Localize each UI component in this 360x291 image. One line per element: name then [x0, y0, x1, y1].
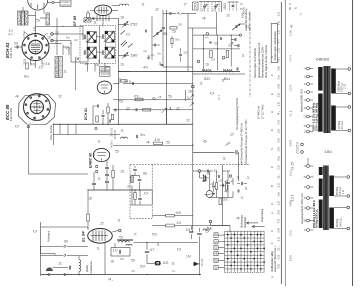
gang right edge line [221, 2, 223, 13]
svg-text:180: 180 [130, 54, 138, 58]
svg-text:10k: 10k [289, 29, 293, 36]
detector vertical wire x231.2 [230, 35, 232, 66]
resistor below ECH81 [26, 63, 28, 69]
dial table right label [271, 246, 277, 272]
EM80 capacitor m2 [237, 190, 239, 193]
svg-text:9: 9 [124, 80, 129, 84]
oscillator coil L5 [120, 4, 129, 6]
resistor row2 [143, 109, 151, 111]
wire right of label boxes [75, 57, 77, 90]
FM block capacitor d1 [209, 41, 212, 43]
trimmer capacitor C15 [124, 23, 126, 26]
labels right of terminals [55, 31, 60, 45]
svg-text:1: 1 [221, 79, 226, 83]
svg-text:56 Wdg 0,35 CuL: 56 Wdg 0,35 CuL [316, 208, 319, 228]
capacitor right r47 [189, 230, 193, 232]
svg-text:5: 5 [36, 19, 41, 23]
svg-text:68k: 68k [289, 199, 293, 206]
svg-text:Skalenzeiger: Skalenzeiger [241, 214, 244, 228]
wire tone capacitor [152, 225, 166, 227]
AVC rail y109.8 [113, 109, 193, 111]
tone network dashed divider [151, 165, 153, 219]
label patch mid top [143, 49, 162, 56]
wire tone resistor [152, 215, 166, 217]
svg-text:4,: 4, [108, 278, 113, 282]
svg-text:7: 7 [133, 233, 138, 237]
IF tuned circuit Fi4 coil [105, 47, 114, 58]
tube EABC80 electrodes [93, 153, 106, 161]
IF tuned circuit Fi4 capacitor [101, 50, 103, 55]
ratio detector left rail [192, 28, 194, 74]
svg-text:3: 3 [88, 197, 93, 201]
svg-text:47: 47 [150, 248, 155, 252]
capacitor mid top area [154, 44, 156, 47]
wire ECH81 top to IF box [35, 26, 37, 33]
svg-text:12: 12 [143, 49, 148, 53]
rail y134.3 [53, 133, 120, 135]
capacitor mid x148 [147, 57, 149, 60]
svg-text:3n: 3n [140, 133, 145, 137]
grid capacitor left of ECH81 [16, 46, 18, 49]
EM80 resistor k3 [215, 183, 217, 190]
dial table switch box 4 [214, 252, 218, 256]
IF transformer dashed box [80, 26, 116, 64]
tone network dashed bottom edge [130, 217, 152, 219]
svg-text:0,: 0, [134, 94, 141, 98]
svg-text:EL 84: EL 84 [80, 231, 85, 242]
capacitor near 10k [132, 82, 134, 85]
resistor 10k left rail [121, 80, 127, 82]
tube EC92 envelope [97, 81, 111, 94]
mixer cluster resistor d [96, 116, 98, 122]
svg-text:3: 3 [47, 36, 52, 40]
wire EL84 plate [112, 231, 118, 233]
Zugrichtung arrow [247, 222, 259, 224]
capacitor bottom left [92, 182, 96, 184]
band switch contacts [121, 41, 127, 47]
power transformer secondary winding bar upper [331, 69, 336, 94]
label box column K1 [18, 11, 22, 25]
svg-text:5: 5 [115, 150, 120, 154]
wire top node to right [36, 25, 84, 27]
diode arrow row2 [162, 108, 167, 113]
svg-text:56: 56 [176, 211, 181, 215]
svg-text:22: 22 [245, 25, 250, 29]
junction dots mixer [102, 124, 119, 125]
svg-text:1M1: 1M1 [223, 3, 227, 10]
mains vertical wire x40.5 [40, 222, 42, 276]
mixer terminal h [95, 127, 97, 129]
svg-text:3n: 3n [188, 90, 194, 94]
tuning gang label box [193, 2, 199, 10]
volume pot capacitor v1 [133, 168, 137, 170]
wire stack vertical [94, 161, 113, 191]
detector vertical wire x217.4 [216, 35, 218, 70]
margin text marks column [289, 29, 293, 261]
power transformer core [324, 66, 331, 133]
svg-text:25252: 25252 [296, 142, 300, 154]
switch contact extra b [128, 44, 132, 48]
svg-text:33: 33 [223, 198, 228, 202]
sheet border right edge [352, 0, 354, 286]
svg-text:7070: 7070 [101, 72, 110, 76]
terminal node A1 [206, 33, 209, 36]
svg-text:0,: 0, [277, 245, 280, 250]
svg-text:15: 15 [84, 62, 89, 66]
wire EF89 left [87, 10, 89, 13]
label column left of AF rails [110, 127, 118, 148]
capacitor top centre x163 [162, 27, 165, 29]
svg-text:U: U [270, 203, 274, 205]
IF box output wires [88, 63, 106, 71]
tube ECH81 pin terminals [23, 35, 47, 59]
second gang trimmer group [228, 2, 239, 11]
B+ vertical wire x237 [238, 152, 240, 181]
IF box centre divider [99, 26, 101, 64]
label box column K2 [21, 11, 25, 25]
wire from output transformer top [307, 158, 309, 165]
svg-text:15: 15 [131, 269, 136, 273]
trimmer capacitor C16 [124, 54, 126, 57]
tuning gang top bracket [199, 1, 221, 3]
svg-text:10: 10 [218, 179, 223, 183]
sheet fold line right [284, 0, 286, 286]
svg-text:70: 70 [105, 65, 110, 69]
mixer cluster capacitor a [97, 105, 99, 108]
IF tuned circuit Fi1 corner blobs [87, 31, 97, 42]
svg-text:2M: 2M [277, 210, 280, 215]
dial table switch box 5 [214, 258, 218, 262]
svg-text:4,: 4, [177, 12, 182, 16]
power transformer secondary winding bar lower [331, 106, 336, 131]
coil 27k right [203, 229, 209, 231]
svg-text:2: 2 [226, 14, 231, 18]
svg-text:5: 5 [166, 141, 171, 145]
tube EF89 envelope [94, 5, 111, 15]
IF tuned circuit Fi3 trimmer arrow [86, 48, 95, 58]
svg-text:4: 4 [202, 17, 207, 21]
capacitor x180 [179, 54, 182, 56]
EM80 terminal t1 [198, 170, 201, 173]
svg-text:eingedreht (Stand max.): eingedreht (Stand max.) [274, 246, 277, 272]
svg-text:K: K [270, 129, 274, 131]
volume pot resistor v2 [131, 176, 133, 183]
svg-text:50: 50 [194, 3, 198, 9]
terminal 158 [191, 85, 194, 88]
power transformer primary winding labels [313, 102, 319, 131]
output transformer secondary bar upper [329, 176, 334, 197]
svg-text:ZF 10,7 MHz: ZF 10,7 MHz [262, 104, 265, 119]
resistor 56k [135, 98, 143, 101]
IF tuned circuit Fi2 coil [105, 31, 114, 42]
svg-text:1: 1 [244, 187, 249, 191]
cathode resistor EL84 [87, 214, 90, 221]
tube ECC85 pin terminals [25, 95, 49, 119]
tube ECH81 pin stub wires [24, 32, 48, 64]
FM block capacitor d2 [220, 37, 222, 40]
IF tuned circuit Fi4 trimmer arrow [104, 48, 113, 58]
volume pot resistor v4 [134, 193, 136, 200]
output transformer winding labels left [313, 200, 319, 228]
svg-text:0,: 0, [277, 56, 280, 61]
dial table box leads [218, 235, 224, 267]
tube EF89 electrodes [97, 7, 110, 14]
tube V1 top (clipped at sheet edge) [28, 0, 48, 10]
output transformer primary coil [119, 241, 130, 243]
svg-text:17 Ω: 17 Ω [344, 84, 347, 89]
svg-text:2n2: 2n2 [289, 169, 293, 176]
EM80 extra capacitor n2 [212, 185, 215, 187]
svg-text:0: 0 [33, 230, 38, 234]
svg-text:180: 180 [289, 254, 293, 261]
svg-text:E: E [270, 93, 274, 95]
B+ capacitor [235, 150, 237, 155]
capacitor 47nF [145, 250, 149, 252]
vertical wire x163 top [162, 10, 164, 67]
terminal node 33 [51, 33, 54, 36]
svg-text:1: 1 [187, 96, 190, 100]
fold-line tick labels [277, 11, 280, 269]
EM80 resistor k5 [225, 181, 227, 190]
antenna coil wires [78, 256, 80, 260]
wire ECC85 bottom rail [28, 173, 88, 175]
svg-text:0,1: 0,1 [289, 109, 293, 116]
svg-text:2: 2 [155, 8, 160, 12]
svg-text:56: 56 [175, 37, 180, 41]
svg-text:2: 2 [230, 133, 235, 137]
output transformer core lines [117, 239, 133, 240]
svg-text:Drehko: Drehko [243, 6, 246, 14]
short vline x185 [185, 90, 187, 101]
svg-text:ECH 81: ECH 81 [84, 108, 88, 120]
svg-text:15: 15 [183, 50, 188, 54]
ECC85 cathode terminal [27, 126, 29, 128]
svg-text:5: 5 [205, 230, 210, 234]
EM80 capacitor k1 [207, 170, 209, 173]
svg-text:1k: 1k [45, 62, 51, 66]
EM80 resistor 4.7k [219, 199, 222, 205]
note text ZF frequencies [236, 98, 265, 165]
svg-text:2n2n2n2n: 2n2n2n2n [59, 57, 63, 77]
diode arrow on rail b [190, 103, 194, 107]
svg-text:2: 2 [58, 262, 63, 266]
tube ECC85 octagon shield [19, 95, 56, 125]
tuning gang section 2 [212, 2, 219, 13]
diode arrow on rail a [190, 95, 194, 99]
label box M2 [100, 72, 111, 76]
terminal below EM80 [209, 220, 212, 223]
loudspeaker connector plug [155, 261, 161, 265]
EM80 capacitor k2 [218, 175, 220, 178]
wire label boxes to tube V1 [28, 15, 36, 17]
main rail y71.5 [118, 71, 240, 73]
wire terminal 43 right [53, 40, 71, 42]
svg-text:15: 15 [176, 221, 181, 225]
label box column K3 [25, 11, 29, 25]
svg-text:30: 30 [204, 77, 210, 81]
label row under IF box [84, 62, 110, 69]
svg-text:1: 1 [168, 107, 173, 111]
svg-text:1: 1 [93, 21, 98, 25]
svg-text:40: 40 [30, 63, 35, 67]
mains step wire [41, 246, 56, 255]
chassis letter labels along fold line [270, 56, 274, 278]
IF transformer label box [84, 18, 91, 22]
svg-text:180: 180 [324, 150, 332, 154]
dial cord grid dashed bottom [225, 271, 265, 273]
labels below ECH81 [8, 28, 51, 69]
dial table switch box 3 [214, 246, 218, 250]
detector resistor R32 [226, 51, 228, 58]
svg-text:5k6: 5k6 [289, 139, 293, 146]
rail y145 [113, 145, 193, 147]
svg-text:10: 10 [113, 249, 118, 253]
detector bottom rail y74 [193, 73, 245, 75]
tone resistor 2ohm [166, 214, 175, 217]
pickup wire y275 arrows [48, 273, 50, 276]
wire ECH81 bottom [35, 61, 37, 69]
svg-text:1: 1 [199, 82, 204, 86]
IF tuned circuit Fi1 trimmer arrow [86, 32, 95, 42]
svg-text:4: 4 [224, 190, 229, 194]
dial cord grid horizontal lines [225, 231, 265, 269]
svg-text:Röhrenvoltmeter bei 220V~: Röhrenvoltmeter bei 220V~ [260, 45, 264, 78]
wire transformer to rail [134, 242, 199, 244]
dial pointer arrow top [252, 226, 264, 228]
wire right node down [82, 26, 84, 34]
EM80 extra wires [200, 171, 227, 192]
EM80 capacitor k4 [226, 181, 230, 183]
svg-text:0: 0 [177, 248, 182, 252]
svg-text:0,45 CuL: 0,45 CuL [339, 217, 342, 227]
svg-text:5: 5 [119, 236, 124, 240]
svg-text:NF-Ausgangsleistung 50mW: NF-Ausgangsleistung 50mW [236, 98, 239, 130]
svg-text:252: 252 [289, 229, 293, 236]
svg-text:8u: 8u [66, 36, 71, 40]
sheet fold line left [280, 2, 282, 284]
detector capacitor C33 [236, 67, 238, 70]
earth electrolytic dome [46, 268, 52, 271]
detector capacitor stack c1 [105, 166, 109, 168]
detector capacitor C32 [237, 44, 239, 47]
svg-text:2: 2 [58, 95, 63, 99]
capacitor symbol at x162 y65 [161, 64, 164, 66]
tube EABC80 envelope [93, 148, 109, 161]
svg-text:H: H [270, 111, 274, 113]
svg-text:3n: 3n [157, 52, 162, 56]
svg-text:0: 0 [126, 33, 131, 37]
dial table switch box 6 [214, 265, 218, 269]
mixer cluster capacitor e [109, 120, 111, 123]
wire ECC85 right to rail [52, 124, 54, 134]
dial cord grid vertical lines [225, 231, 265, 272]
trimmer arrow C15 [122, 22, 128, 28]
EM80 terminal t2 [229, 175, 231, 177]
resistor 1k top centre [170, 27, 177, 29]
detector coil core dashes [202, 68, 233, 70]
svg-text:(Draht): (Draht) [86, 265, 89, 272]
svg-text:33: 33 [211, 58, 216, 62]
svg-text:0,5: 0,5 [291, 162, 295, 170]
tube EL84 grid terminal [119, 229, 122, 232]
volume pot capacitor v5 [138, 197, 142, 199]
svg-text:56k56: 56k56 [24, 11, 28, 24]
svg-text:5: 5 [168, 95, 173, 99]
svg-text:0,7 CuL: 0,7 CuL [341, 120, 344, 129]
capacitor row3 93 [136, 135, 138, 138]
svg-text:gemessen gegen Chassis mit: gemessen gegen Chassis mit [257, 42, 261, 78]
svg-text:4: 4 [236, 217, 241, 221]
tone network dashed box left edge [129, 165, 131, 219]
AF rail y190 [88, 189, 152, 191]
svg-text:56: 56 [120, 257, 125, 261]
tube V1 terminal [52, 1, 54, 3]
svg-text:4 Ω: 4 Ω [342, 190, 345, 194]
svg-text:1: 1 [117, 219, 122, 223]
wire tube V1 to label [48, 2, 52, 4]
scattered value labels [15, 3, 246, 266]
svg-text:7: 7 [183, 3, 188, 7]
svg-text:6: 6 [214, 233, 218, 237]
capacitor near gang feed [145, 30, 147, 33]
svg-text:8u: 8u [24, 75, 29, 79]
IF box internal wires [88, 37, 106, 53]
svg-text:Spannungen und Ströme: Spannungen und Ströme [253, 48, 257, 78]
svg-text:ohne Signal an der Antenne: ohne Signal an der Antenne [264, 44, 268, 78]
svg-text:1: 1 [171, 262, 176, 266]
svg-text:0,: 0, [277, 173, 280, 178]
second gang labels [240, 3, 244, 11]
EM80 capacitor m1 [203, 180, 206, 182]
terminals above power transformer [296, 142, 304, 154]
long rail y124.3 [53, 123, 193, 125]
svg-text:2: 2 [176, 107, 181, 111]
svg-text:3: 3 [120, 63, 125, 67]
svg-text:0: 0 [15, 125, 20, 129]
marks right of ECH81 [62, 26, 78, 44]
IF tuned circuit Fi4 corner blobs [105, 47, 115, 58]
svg-text:Änderungen vorbehalten: Änderungen vorbehalten [273, 31, 277, 61]
svg-text:8: 8 [143, 172, 148, 176]
detector coil L31 [202, 71, 212, 73]
coupling capacitor row2 [135, 108, 137, 111]
svg-text:15: 15 [154, 138, 160, 142]
IF tuned circuit Fi2 trimmer arrow [104, 32, 113, 42]
svg-text:33: 33 [23, 59, 27, 65]
svg-text:3: 3 [120, 170, 125, 174]
svg-text:3: 3 [110, 260, 115, 264]
tube EC92 electrodes [101, 85, 109, 93]
dial cord grid dots [227, 234, 265, 270]
misc wiring segments [23, 7, 230, 275]
svg-text:EABC 80: EABC 80 [88, 153, 92, 168]
magic eye feed diode arrow [232, 24, 240, 30]
power transformer primary winding bar [318, 67, 322, 91]
junction dots misc [53, 33, 194, 275]
svg-text:4: 4 [146, 141, 151, 145]
IF tuned circuit Fi3 corner blobs [87, 47, 97, 58]
note text Spannungen gemessen [253, 42, 268, 78]
svg-text:4: 4 [15, 95, 20, 99]
detector vertical wire x203.5 [203, 35, 205, 70]
tube EABC80 terminals below [96, 165, 98, 172]
EM80 labels scatter [203, 176, 249, 194]
resistor at EF89 grid [87, 13, 90, 18]
svg-text:Rückwand: Rückwand [48, 230, 51, 242]
EM80 extra capacitor n1 [221, 184, 223, 187]
wire terminal 33 right [53, 33, 83, 35]
IF tuned circuit Fi1 capacitor [83, 35, 85, 40]
